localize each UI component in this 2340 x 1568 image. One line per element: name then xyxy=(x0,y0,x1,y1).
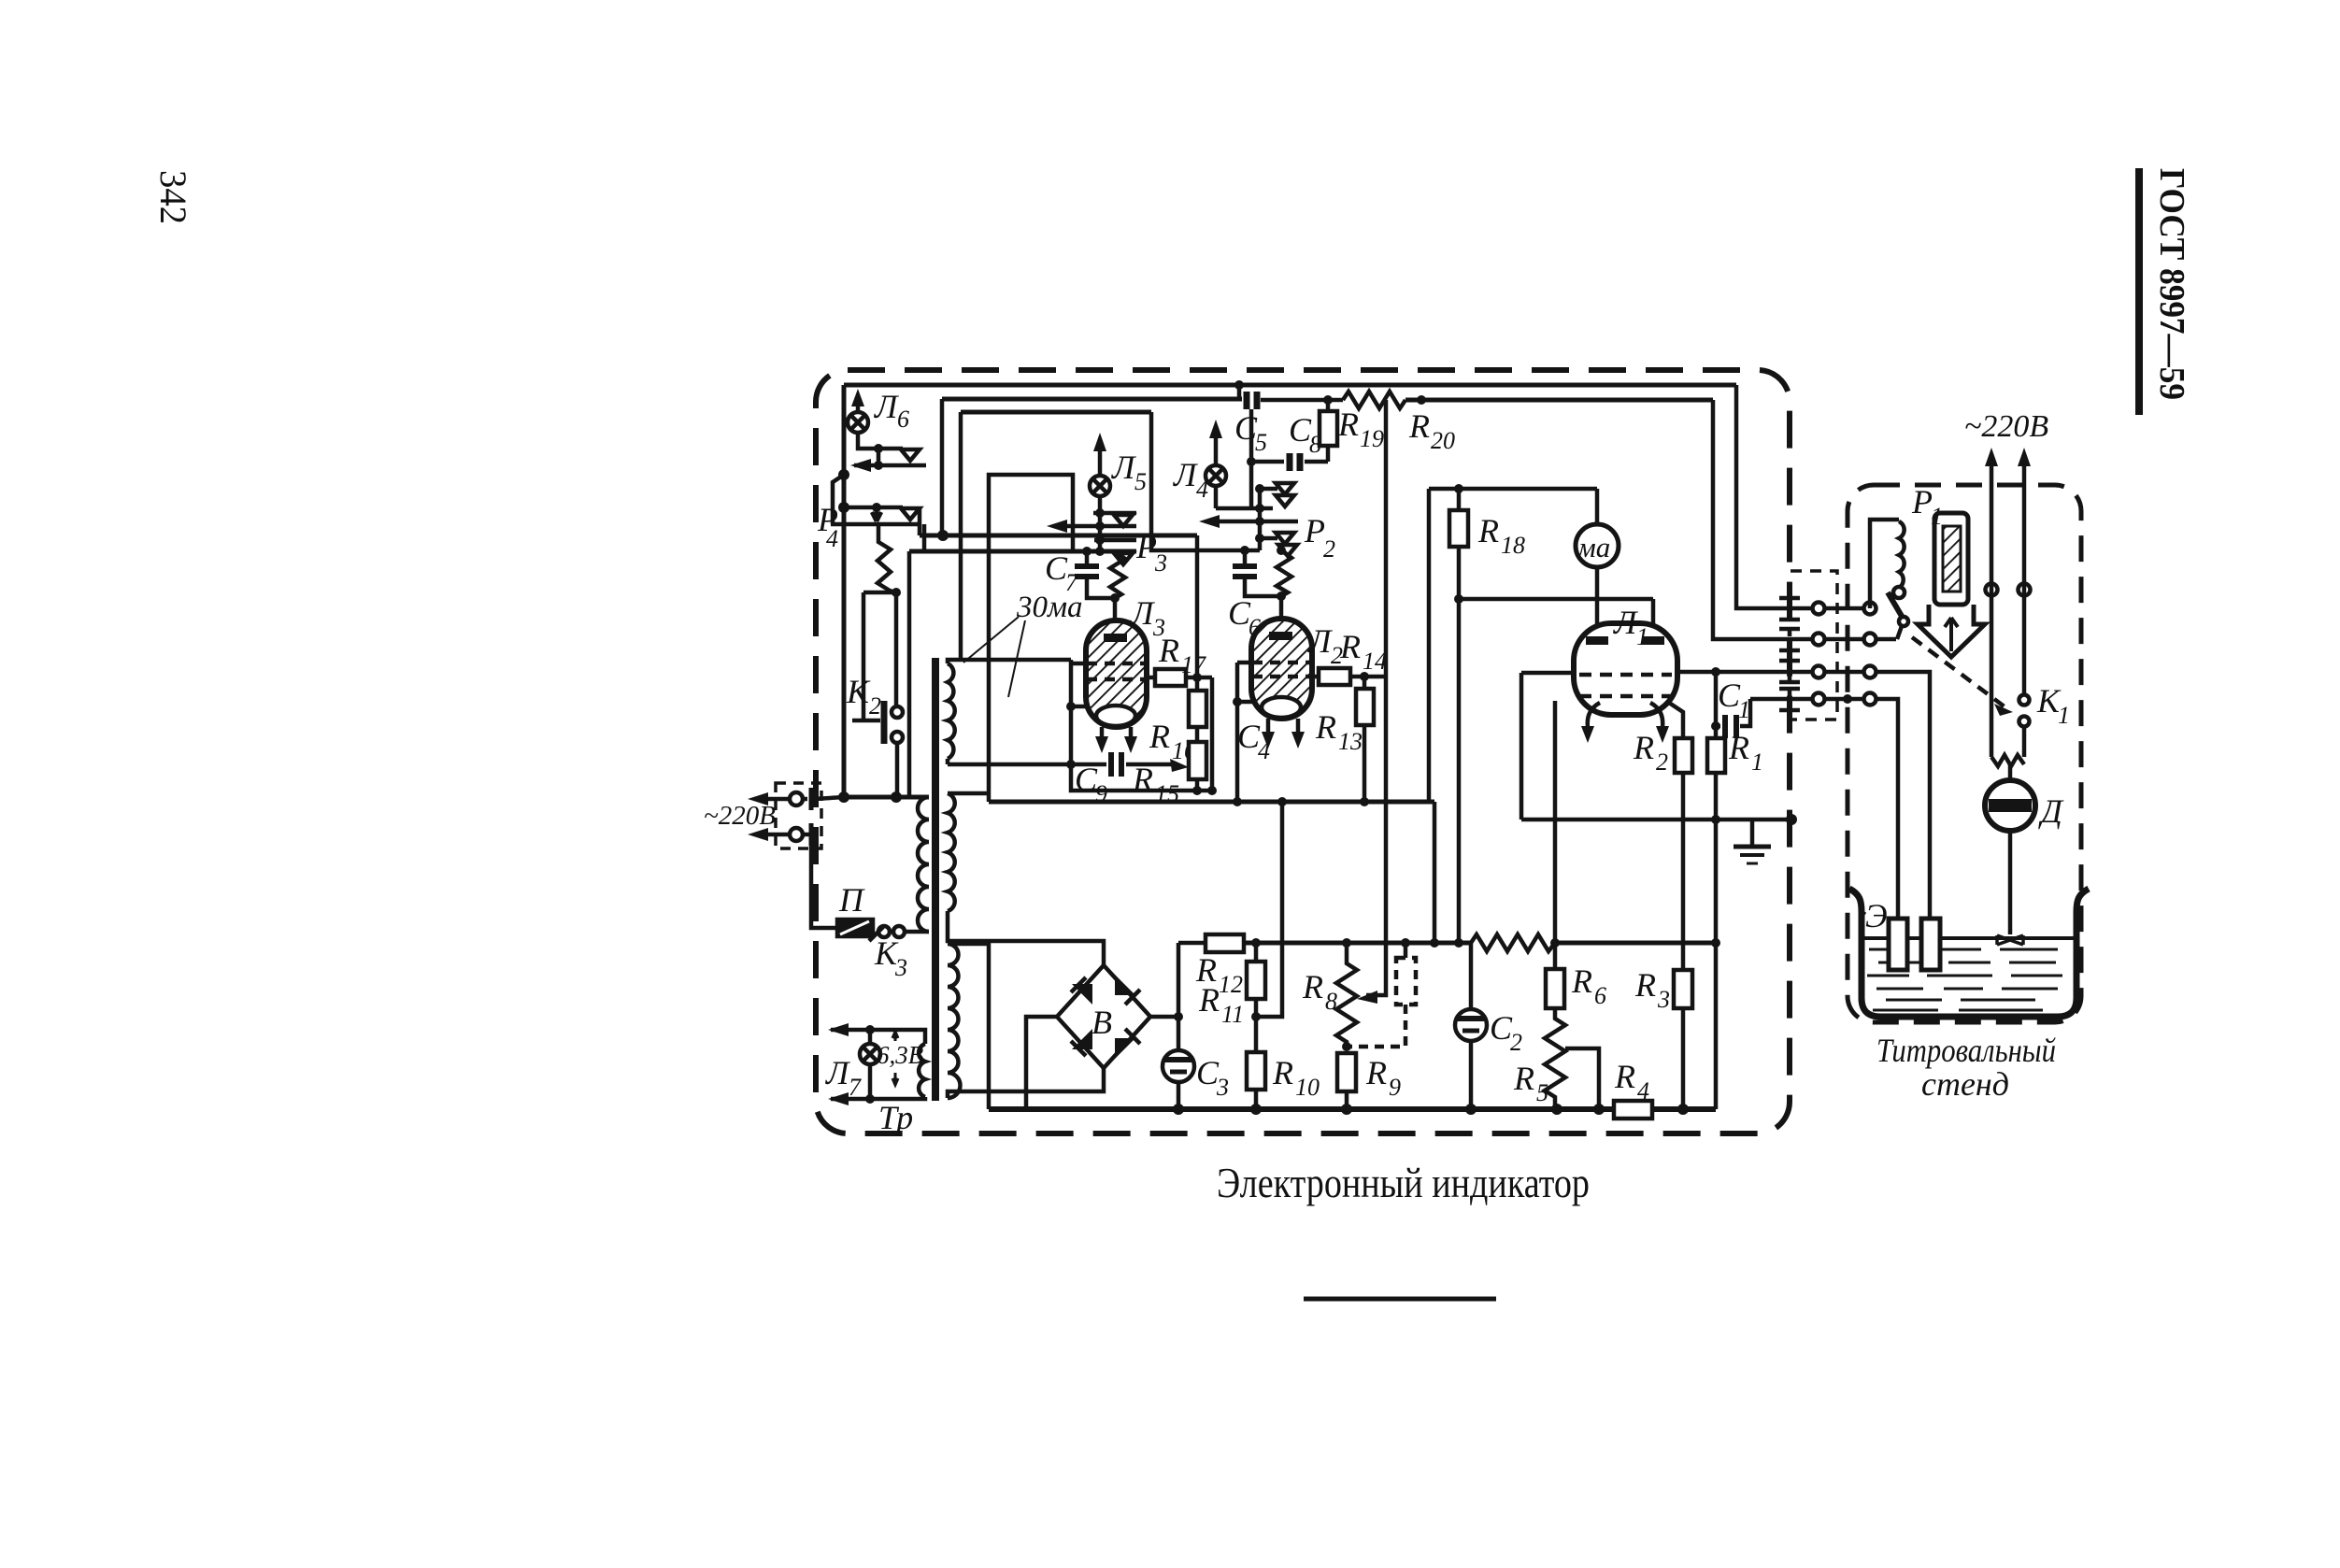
tube Л2 cathode arrows xyxy=(1266,719,1271,741)
tube Л1 cathode arrows xyxy=(1588,703,1600,727)
relay P2 movable arm arrow xyxy=(1206,520,1298,524)
svg-text:R: R xyxy=(1315,708,1336,746)
svg-text:12: 12 xyxy=(1219,971,1243,998)
wire W1 bottom to C9 line xyxy=(946,759,950,764)
svg-text:1: 1 xyxy=(1751,748,1763,776)
dropper burette xyxy=(1934,513,1968,605)
lamp Л4 xyxy=(1206,465,1226,486)
capacitor C3 electrolytic xyxy=(1177,943,1181,1048)
BOTTOM2 xyxy=(1429,385,1930,943)
MIDCOL2 xyxy=(989,380,1713,1017)
dashed link P1 to K1 xyxy=(1912,637,2005,707)
svg-text:2: 2 xyxy=(1510,1029,1522,1056)
svg-text:Л: Л xyxy=(1307,622,1334,660)
wire top bus 1 xyxy=(844,383,1736,388)
wire line B drop to mains xyxy=(907,551,912,797)
switch K3 xyxy=(869,927,883,941)
svg-text:30ма: 30ма xyxy=(1016,591,1083,624)
wire filament top xyxy=(831,1030,925,1044)
titration stand dashed enclosure xyxy=(1848,485,2081,1022)
svg-text:4: 4 xyxy=(1637,1077,1649,1105)
main dashed enclosure (electronic indicator) xyxy=(816,370,1790,1133)
wire W3 bottom to bridge xyxy=(948,1068,1104,1098)
relay P3 movable arm arrow xyxy=(1054,524,1136,529)
resistor R11 xyxy=(1247,962,1265,999)
svg-text:5: 5 xyxy=(1134,468,1147,495)
wire frame 508 xyxy=(989,475,1073,802)
tube Л1 envelope xyxy=(1574,623,1677,715)
svg-text:13: 13 xyxy=(1338,728,1363,755)
relay P4 movable contact arrow row xyxy=(854,463,926,468)
svg-text:Л: Л xyxy=(874,388,900,425)
beaker xyxy=(1849,889,2089,1017)
wire row D to line B xyxy=(922,524,927,551)
wire R14 junction down to R8 wiper xyxy=(1366,677,1386,995)
wire R18 top line xyxy=(1429,487,1597,492)
capacitor C9 line with wiper arrow xyxy=(948,763,1106,767)
svg-text:R: R xyxy=(1272,1054,1293,1091)
resistor R7 zigzag xyxy=(1454,938,1463,948)
capacitor C1 xyxy=(1711,721,1720,731)
lamp Л5 arrow xyxy=(1098,441,1103,476)
tube Л1 anode pads xyxy=(1586,636,1608,645)
wire R5 tap xyxy=(1565,1048,1599,1109)
svg-text:Л: Л xyxy=(1130,594,1156,632)
ground bus xyxy=(1521,818,1791,822)
tube Л2 grids xyxy=(1237,661,1251,665)
svg-text:R: R xyxy=(1408,407,1430,445)
wire grid row3 xyxy=(1521,671,1574,676)
dashed auxiliary resistor xyxy=(1396,958,1416,1005)
ground symbol xyxy=(1750,820,1755,847)
wire line A drop xyxy=(1195,535,1200,677)
L2COL2 xyxy=(989,772,1720,1119)
bridge diode 3 xyxy=(1072,1029,1092,1049)
bottom bus xyxy=(989,1106,1716,1112)
wire K2 to mains junction xyxy=(895,743,900,797)
wire tube section bus xyxy=(989,800,1434,805)
bridge rectifier В xyxy=(1057,965,1150,1068)
wire W3 top xyxy=(948,944,989,1109)
wire drop to bus xyxy=(1427,489,1432,802)
plug contact lower xyxy=(790,828,803,841)
wire W2 bottom to bridge xyxy=(948,911,1104,965)
relay P4 contact row C xyxy=(844,506,903,510)
tube Л3 anode pad xyxy=(1104,634,1127,642)
tube Л1 grids dashed xyxy=(1579,673,1672,677)
wire jog to contact row D xyxy=(833,475,844,524)
node R8 bottom xyxy=(1342,1042,1351,1051)
TOPLEFT2 xyxy=(948,433,1217,807)
svg-text:2: 2 xyxy=(1323,535,1335,563)
bridge diode 2 xyxy=(1115,975,1135,995)
svg-text:R: R xyxy=(1339,628,1361,665)
fuse П xyxy=(837,919,873,936)
wire R16-R15 xyxy=(1195,677,1200,691)
bridge diode 1 xyxy=(1072,984,1092,1005)
capacitor C2 electrolytic xyxy=(1469,943,1474,1009)
svg-text:~220В: ~220В xyxy=(704,801,776,831)
resistor R16 xyxy=(1189,691,1206,727)
relay P2 contact row 2 xyxy=(1216,506,1273,511)
svg-text:1: 1 xyxy=(1738,696,1750,723)
relay P3 contact row 3 xyxy=(1094,538,1136,543)
wire left pole vertical xyxy=(842,385,847,797)
wire lamp Л6 to contact xyxy=(858,433,903,449)
mains line 2 with arrow xyxy=(2022,464,2027,694)
wire to tube anode xyxy=(1113,598,1118,622)
svg-text:1: 1 xyxy=(2058,702,2070,729)
svg-text:342: 342 xyxy=(152,170,194,224)
resistor R2 xyxy=(1675,738,1692,773)
RIGHTSEC2 xyxy=(1849,409,2089,1017)
wire to tube Л2 anode xyxy=(1279,596,1284,620)
tube Л3 cathode arrows xyxy=(1100,727,1105,746)
relay P4 fixed contact triangle xyxy=(901,508,920,520)
liquid surface xyxy=(1862,936,2076,940)
pointer lines xyxy=(963,617,1019,663)
lamp Л6 arrow xyxy=(856,396,861,412)
svg-text:20: 20 xyxy=(1431,427,1455,454)
svg-text:3: 3 xyxy=(1154,549,1167,577)
connector row 1 xyxy=(1736,385,1813,608)
connector housing dashed bracket xyxy=(1791,571,1837,720)
wire line A xyxy=(920,534,1197,538)
resistor R13 xyxy=(1356,689,1374,725)
stirrer shaft xyxy=(2008,831,2013,934)
wire plug to fuse xyxy=(811,834,837,928)
tube Л2 envelope xyxy=(1251,619,1312,719)
svg-text:R: R xyxy=(1513,1060,1534,1097)
mains plug dashed outline xyxy=(776,783,821,848)
relay P4 contact row D xyxy=(831,522,920,527)
transformer Тр core xyxy=(932,658,939,1101)
svg-text:14: 14 xyxy=(1363,648,1387,675)
svg-text:3: 3 xyxy=(894,954,907,981)
svg-text:R: R xyxy=(1302,968,1323,1005)
svg-text:4: 4 xyxy=(1258,737,1270,764)
wire line B xyxy=(909,549,1136,554)
svg-text:6: 6 xyxy=(1594,982,1606,1009)
electrode 2 xyxy=(1921,919,1940,970)
wire coil bottom xyxy=(863,591,896,595)
wire R1 lower drop xyxy=(1714,820,1719,943)
wire cathode box right xyxy=(1210,677,1215,791)
capacitor C8 xyxy=(1251,460,1284,464)
wire third grid tap xyxy=(1071,705,1087,709)
svg-text:R: R xyxy=(1634,966,1656,1004)
wire bus2 xyxy=(942,397,1242,402)
dropper valve arrow xyxy=(1918,605,1985,657)
svg-text:R: R xyxy=(1614,1058,1635,1095)
wire filament bottom xyxy=(831,1097,925,1099)
node junction xyxy=(874,444,883,453)
svg-text:Р: Р xyxy=(1911,483,1933,520)
wire K3 to primary xyxy=(905,930,929,934)
svg-text:R: R xyxy=(1571,962,1592,1000)
lamp Л5 xyxy=(1090,476,1110,496)
svg-text:Л: Л xyxy=(1173,456,1199,493)
svg-text:Р: Р xyxy=(1135,528,1157,565)
svg-text:К: К xyxy=(846,673,871,710)
wire to button K2 xyxy=(862,592,866,720)
stirrer propeller xyxy=(1997,935,2023,945)
svg-text:Титровальный: Титровальный xyxy=(1876,1032,2056,1069)
wire mains feed xyxy=(844,795,929,800)
svg-text:Л: Л xyxy=(825,1054,851,1091)
relay P3 row 4 triangle on line B xyxy=(1114,553,1133,564)
relay P3 contact row 1 xyxy=(1093,511,1136,516)
svg-text:5: 5 xyxy=(1255,429,1267,456)
potentiometer R15 xyxy=(1189,742,1206,779)
header rule ГОСТ xyxy=(2135,168,2143,415)
wire W1 top xyxy=(948,660,1071,663)
svg-text:Л: Л xyxy=(1613,604,1639,641)
resistor R3 xyxy=(1681,772,1686,970)
relay P4 coil zigzag xyxy=(877,524,895,592)
svg-text:7: 7 xyxy=(849,1074,862,1101)
connector row 2 xyxy=(1713,400,1813,639)
wire cathode box left and bottom xyxy=(1071,660,1212,791)
transformer filament winding 6.3V xyxy=(919,1044,925,1097)
connector contact bars xyxy=(1779,598,1800,620)
tube Л3 envelope xyxy=(1086,620,1147,727)
wire second anode line xyxy=(1459,597,1653,602)
relay P2 coil zigzag xyxy=(1277,550,1291,596)
node junction xyxy=(838,502,849,513)
transformer primary winding xyxy=(918,797,929,932)
potentiometer R8 zigzag xyxy=(1342,938,1351,948)
wire grid left drop xyxy=(1520,673,1524,820)
mains break squiggle xyxy=(1991,755,2024,766)
resistor R6 xyxy=(1550,938,1560,948)
svg-text:6: 6 xyxy=(897,406,909,433)
tube Л3 grids xyxy=(1071,662,1086,666)
svg-text:4: 4 xyxy=(1196,476,1208,503)
wire bus drop to bottom network xyxy=(1433,802,1437,943)
svg-text:2: 2 xyxy=(1656,748,1668,776)
relay P2 contact row 1 xyxy=(1260,487,1277,492)
liquid hatching xyxy=(1867,949,2062,1010)
svg-text:R: R xyxy=(1477,512,1499,549)
electrode 1 xyxy=(1889,919,1907,970)
resistor R14 xyxy=(1312,675,1319,679)
svg-text:Д: Д xyxy=(2038,792,2064,830)
svg-text:ГОСТ 8997—59: ГОСТ 8997—59 xyxy=(2152,168,2191,400)
svg-text:11: 11 xyxy=(1221,1001,1244,1028)
bridge diode 4 xyxy=(1115,1038,1135,1059)
svg-text:10: 10 xyxy=(1295,1074,1320,1101)
resistor R1 xyxy=(1714,672,1719,738)
capacitor C7 xyxy=(1085,551,1090,564)
svg-text:Э: Э xyxy=(1865,897,1888,934)
mains line 1 with arrow xyxy=(1990,464,1994,757)
switch K1 xyxy=(2019,695,2030,706)
wire bus3 drop to winding xyxy=(959,412,963,660)
svg-text:R: R xyxy=(1149,718,1170,755)
svg-text:В: В xyxy=(1092,1004,1112,1041)
wire P2 column xyxy=(1258,489,1263,550)
resistor R19 xyxy=(1320,411,1337,446)
svg-text:3: 3 xyxy=(1657,986,1670,1013)
wire bus3 link to P2 xyxy=(1151,412,1260,550)
milliammeter ма xyxy=(1595,489,1600,525)
wire C4 node drop xyxy=(1256,802,1282,1017)
svg-text:R: R xyxy=(1198,981,1220,1019)
svg-text:стенд: стенд xyxy=(1921,1065,2009,1103)
relay P3 coil zigzag xyxy=(1110,551,1125,598)
lamp Л4 arrow xyxy=(1214,428,1219,465)
tube Л2 anode pad xyxy=(1269,632,1292,640)
wire bridge left corner to bottom bus xyxy=(1026,1017,1057,1109)
relay P1 armature xyxy=(1888,592,1903,618)
svg-text:19: 19 xyxy=(1360,425,1384,452)
svg-text:Р: Р xyxy=(1304,512,1325,549)
wire W2 top xyxy=(948,791,989,796)
wire C5 node down xyxy=(1249,409,1254,508)
svg-text:R: R xyxy=(1337,406,1359,443)
svg-text:2: 2 xyxy=(869,692,881,720)
wire bus2 drop xyxy=(940,399,945,535)
wire right cathode to R2 xyxy=(1669,703,1683,738)
svg-text:3: 3 xyxy=(1216,1074,1229,1101)
wire lamp Л4 down xyxy=(1214,486,1219,508)
wire link rows xyxy=(877,449,881,465)
svg-text:ма: ма xyxy=(1577,531,1610,563)
wire anode feed from bus2 xyxy=(1384,400,1389,677)
svg-text:8: 8 xyxy=(1325,988,1337,1015)
svg-text:Л: Л xyxy=(1111,449,1137,486)
wire P3 column xyxy=(1098,513,1103,551)
capacitor C5 in bus2 xyxy=(1234,380,1244,390)
capacitor C6 xyxy=(1243,550,1248,564)
lamp Л6 xyxy=(848,412,868,433)
resistor R20 zigzag in bus2 xyxy=(1343,392,1405,408)
resistor R18 xyxy=(1457,489,1462,510)
resistor R17 xyxy=(1147,676,1155,680)
node junction xyxy=(838,791,849,803)
svg-text:R: R xyxy=(1633,729,1654,766)
wire bus right corner up xyxy=(1714,943,1719,1109)
relay P2 contact row 4 xyxy=(1260,536,1277,541)
tube Л3 cathode oval xyxy=(1096,706,1135,726)
svg-text:5: 5 xyxy=(1536,1079,1548,1106)
pushbutton K2 xyxy=(881,701,888,744)
resistor R10 xyxy=(1247,1052,1265,1090)
svg-text:Электронный индикатор: Электронный индикатор xyxy=(1217,1159,1590,1206)
rheostat R5 zigzag xyxy=(1545,1008,1565,1109)
tube Л2 cathode oval xyxy=(1262,697,1301,718)
node junction xyxy=(937,530,949,541)
wire Л2 grid left down to bus xyxy=(1235,663,1240,802)
motor Д xyxy=(2008,764,2013,780)
connector row 4 xyxy=(1750,697,1813,702)
resistor R4 on bus xyxy=(1614,1101,1652,1119)
wire left cathode to R6 xyxy=(1553,701,1558,943)
plug contact upper xyxy=(790,792,803,805)
wire bridge right corner to C3 node xyxy=(1150,1015,1178,1019)
svg-text:~220В: ~220В xyxy=(1964,409,2048,444)
svg-text:Тр: Тр xyxy=(878,1099,913,1136)
transformer secondary winding W1 xyxy=(948,663,955,759)
lamp Л7 xyxy=(868,1030,873,1045)
svg-text:П: П xyxy=(838,881,865,919)
svg-text:R: R xyxy=(1365,1054,1387,1091)
resistor R12 xyxy=(1178,941,1206,946)
transformer secondary winding W3 xyxy=(948,944,961,1098)
separator line xyxy=(1304,1297,1496,1302)
svg-text:18: 18 xyxy=(1501,532,1525,559)
svg-text:9: 9 xyxy=(1389,1074,1401,1101)
connector row 3 xyxy=(1813,666,1825,678)
wire row C to line A xyxy=(918,507,922,535)
relay P4 fixed contact triangle xyxy=(901,449,920,461)
svg-text:R: R xyxy=(1158,632,1179,669)
relay P1 coil xyxy=(1870,520,1899,608)
transformer secondary winding W2 xyxy=(948,793,955,911)
wire lamp Л5 down xyxy=(1098,496,1103,513)
resistor R9 xyxy=(1337,1053,1356,1091)
svg-text:4: 4 xyxy=(826,525,838,552)
svg-text:6,3В: 6,3В xyxy=(877,1041,923,1069)
wire bus3 xyxy=(961,410,1151,415)
node junction xyxy=(838,469,849,480)
wire R18 bottom xyxy=(1457,547,1462,943)
